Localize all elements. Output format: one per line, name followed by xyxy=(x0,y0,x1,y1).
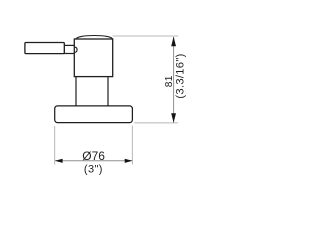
svg-text:Ø76: Ø76 xyxy=(82,149,105,163)
svg-text:(3"): (3") xyxy=(84,163,103,175)
svg-text:(3.3/16"): (3.3/16") xyxy=(175,53,187,98)
svg-text:81: 81 xyxy=(164,75,175,87)
